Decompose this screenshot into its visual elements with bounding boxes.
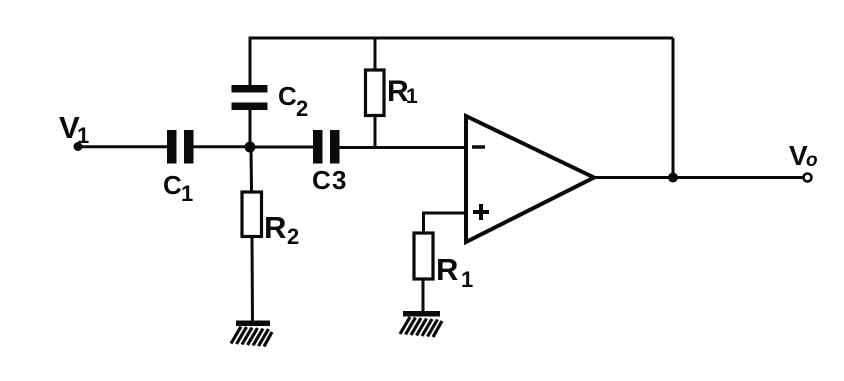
resistor R2 <box>242 192 262 237</box>
capacitor C2 <box>232 85 268 110</box>
wire input to C1 <box>78 145 167 148</box>
wire R2 to ground <box>251 237 255 325</box>
label R2 <box>264 210 299 249</box>
label C2 <box>278 81 308 121</box>
input terminal V1 <box>74 142 83 151</box>
output terminal Vo <box>804 174 812 182</box>
wire C2 up to top rail <box>249 37 252 86</box>
label Vo <box>789 140 818 171</box>
svg-text:R: R <box>264 210 286 245</box>
wire C3 to op-amp inverting input <box>340 146 467 149</box>
wire op-amp output <box>593 176 803 179</box>
label R1 (feedback) <box>387 75 418 108</box>
op-amp U1 <box>466 116 594 242</box>
resistor R1 (grounding) <box>414 233 433 279</box>
label V1 <box>59 110 89 148</box>
ground (R2) <box>231 321 272 347</box>
svg-text:1: 1 <box>406 85 418 108</box>
svg-text:2: 2 <box>287 224 299 249</box>
svg-text:R: R <box>436 252 458 287</box>
wire R1 to ground <box>422 279 425 313</box>
wire node A up to C2 <box>249 110 252 147</box>
wire feedback from rail down to output <box>672 38 675 178</box>
ground (noninverting input) <box>400 311 442 337</box>
wire R1 down to inverting input line <box>374 116 377 148</box>
svg-text:C: C <box>312 165 331 195</box>
svg-text:2: 2 <box>296 96 308 121</box>
wire node A to C3 <box>250 146 313 149</box>
node B junction dot on output <box>668 173 678 183</box>
svg-text:o: o <box>806 150 818 171</box>
node A junction dot <box>245 142 256 153</box>
op-amp minus input symbol <box>472 145 485 149</box>
resistor R1 (feedback) <box>366 70 385 116</box>
wire node A down to R2 <box>250 147 254 192</box>
svg-text:C: C <box>278 81 297 111</box>
capacitor C1 <box>167 130 194 164</box>
wire rail down to resistor R1 <box>374 38 377 70</box>
wire top rail <box>249 37 674 40</box>
wire C1 to node A <box>194 145 251 148</box>
capacitor C3 <box>313 130 340 164</box>
label C3 <box>312 165 346 195</box>
wire op-amp noninverting input <box>424 212 467 234</box>
label R1 (grounding) <box>436 252 473 292</box>
svg-text:C: C <box>163 170 182 200</box>
svg-text:1: 1 <box>181 181 193 206</box>
op-amp plus input symbol <box>473 204 489 220</box>
svg-text:3: 3 <box>332 165 346 195</box>
svg-text:1: 1 <box>461 267 473 292</box>
label C1 <box>163 170 193 206</box>
svg-text:1: 1 <box>77 123 89 148</box>
